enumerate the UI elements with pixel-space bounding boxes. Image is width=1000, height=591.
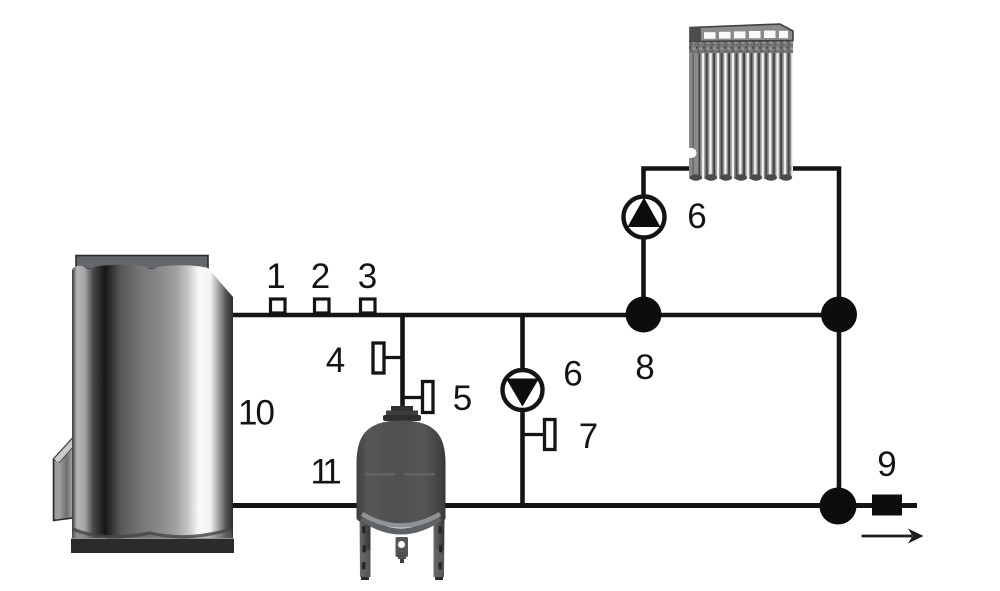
vessel top fitting [391, 406, 413, 412]
svg-text:7: 7 [579, 417, 598, 456]
svg-text:5: 5 [453, 379, 472, 418]
wire: supply pipe from boiler to node 8 right [230, 313, 839, 318]
boiler top lid [76, 256, 208, 270]
meter 9 (black block on outlet) [872, 495, 902, 516]
sensor 7 (well on pump branch) [523, 420, 556, 450]
vessel left leg [360, 510, 371, 580]
svg-text:3: 3 [358, 257, 377, 296]
radiator fins [689, 52, 793, 179]
vessel bottom drain valve [396, 537, 409, 563]
boiler 10 [54, 256, 235, 554]
node 8 (left junction) [626, 297, 662, 333]
flow arrow [862, 529, 924, 544]
vessel body [357, 421, 446, 528]
radiator bottom section ends [690, 174, 702, 180]
sensor 1 (square on supply pipe) [271, 299, 286, 313]
node (right upper junction) [821, 297, 857, 333]
radiator [689, 24, 793, 181]
pump 6 (radiator circuit, triangle up) [624, 197, 665, 238]
wire: return pipe from boiler to outlet 9 [230, 503, 917, 508]
node (right lower junction near 9) [820, 488, 857, 525]
wire: pump 6 branch between supply and return [520, 315, 525, 505]
vessel right leg [434, 510, 445, 580]
flue duct on boiler left [54, 430, 81, 521]
boiler bottom rim shading [72, 529, 233, 538]
svg-text:11: 11 [310, 453, 340, 492]
svg-text:6: 6 [687, 197, 706, 236]
svg-text:6: 6 [563, 355, 582, 394]
svg-text:8: 8 [635, 348, 654, 387]
svg-text:2: 2 [311, 257, 330, 296]
expansion vessel [357, 406, 446, 580]
sensor 2 (square on supply pipe) [315, 299, 330, 313]
sensor 3 (square on supply pipe) [361, 299, 376, 313]
sensor 5 (well on vessel branch) [402, 382, 433, 413]
radiator left foot notch [689, 148, 697, 158]
wire: riser from node 8 through pump 6 to radiator inlet [644, 169, 693, 316]
wire: radiator outlet down to node 8 right and node 9 [789, 169, 839, 507]
boiler body [72, 265, 233, 538]
svg-text:4: 4 [326, 341, 345, 380]
boiler base plate [71, 539, 234, 554]
wire: branch to expansion vessel [400, 315, 405, 414]
vessel bottom dish rim [362, 518, 440, 532]
svg-text:10: 10 [238, 394, 274, 433]
pump 6 (boiler circuit, triangle down) [503, 370, 543, 410]
radiator section necks [689, 40, 793, 53]
vessel weld seams [366, 473, 395, 476]
svg-text:9: 9 [877, 445, 896, 484]
sensor 4 (well on vessel branch) [373, 343, 402, 373]
svg-text:1: 1 [266, 257, 285, 296]
radiator top cap [690, 24, 793, 42]
